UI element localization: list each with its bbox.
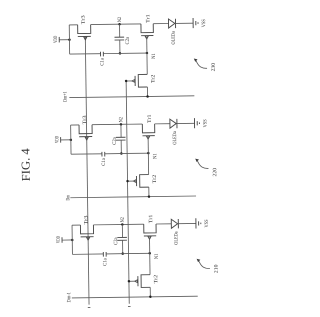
capacitor C1a (220) [102, 152, 105, 157]
node N1 junction (220) [147, 152, 150, 155]
wire top rail middle segment (220) [92, 123, 142, 126]
wire select line for Tr3 gates (vertical column) [85, 37, 89, 305]
junction Tr2 gate to select line (230) [125, 80, 128, 83]
junction Tr2 on scan line (210) [149, 296, 152, 299]
capacitor C2a (220) [116, 137, 126, 140]
junction C2a bottom (230) [119, 52, 122, 55]
wire top rail middle segment (230) [91, 23, 141, 26]
transistor Tr2 (210) [135, 275, 150, 288]
wire Tr2 gate stub (220) [128, 180, 134, 182]
select line end tick [88, 306, 91, 308]
wire VDD feed (210) [62, 239, 72, 241]
svg-text:N1: N1 [152, 153, 158, 159]
wire top rail left segment (230) [69, 24, 77, 26]
wire bottom rail right segment (210) [106, 252, 150, 255]
wire VDD feed (230) [59, 39, 69, 41]
wire N1 down to Tr2 (220) [147, 153, 149, 174]
wire top rail left segment (210) [72, 224, 80, 226]
junction Tr2 gate to select line (220) [126, 180, 129, 183]
transistor Tr1 (220) [142, 124, 155, 139]
wire scan line Dm-1 [72, 296, 198, 298]
VDD terminal bar (210) [61, 237, 63, 242]
svg-text:VDD: VDD [54, 136, 60, 143]
svg-text:230: 230 [211, 62, 217, 71]
wire N1 down to Tr2 (230) [146, 53, 148, 74]
wire C2a to bottom rail (220) [120, 140, 122, 153]
svg-text:VDD: VDD [53, 35, 59, 42]
transistor Tr1 (230) [141, 24, 154, 39]
wire bottom rail left segment (220) [71, 153, 102, 155]
pointer arrow to block 210 [197, 259, 201, 262]
junction VDD node (210) [71, 239, 74, 242]
wire C2a to bottom rail (230) [119, 40, 121, 53]
capacitor C2a (210) [117, 237, 127, 240]
svg-text:N2: N2 [118, 117, 124, 123]
svg-text:Dm-1: Dm-1 [66, 292, 72, 303]
wire Tr1 gate to N1 (220) [147, 137, 149, 153]
svg-text:Tr1: Tr1 [147, 114, 153, 123]
wire bottom rail left segment (210) [72, 253, 103, 255]
wire VDD vertical (220) [70, 125, 72, 154]
pointer arrow to block 230 [194, 58, 198, 61]
svg-text:210: 210 [213, 264, 219, 273]
wire scan line Dm+1 [69, 96, 194, 98]
svg-text:OLEDa: OLEDa [171, 31, 177, 45]
junction VDD node (220) [70, 139, 73, 142]
node N2 junction (210) [121, 223, 124, 226]
node N2 junction (220) [120, 123, 123, 126]
wire Tr2 gate stub (230) [126, 80, 132, 82]
wire Tr2 gate stub (210) [129, 280, 135, 282]
capacitor C1a (210) [103, 252, 106, 257]
svg-text:N1: N1 [154, 253, 160, 259]
wire N1 down to Tr2 (210) [149, 253, 151, 274]
svg-text:C1a: C1a [101, 158, 107, 166]
wire top rail to OLED (210) [156, 223, 171, 225]
wire VDD vertical (230) [68, 25, 70, 54]
wire OLED cathode to VSS (220) [177, 122, 195, 124]
node N1 junction (210) [148, 252, 151, 255]
svg-text:Tr2: Tr2 [153, 274, 159, 283]
svg-text:C1a: C1a [102, 258, 108, 266]
junction C2a bottom (220) [120, 152, 123, 155]
wire scan line Dm [70, 196, 196, 198]
svg-text:Dm+1: Dm+1 [62, 91, 68, 102]
capacitor C1a (230) [101, 52, 104, 57]
wire select line for Tr2 gates (vertical column) [126, 81, 129, 304]
svg-text:N2: N2 [117, 17, 123, 23]
svg-text:Tr2: Tr2 [152, 174, 158, 183]
junction C2a bottom (210) [121, 252, 124, 255]
svg-text:OLEDa: OLEDa [172, 131, 178, 145]
transistor Tr3 (220) [79, 125, 92, 140]
wire bottom rail right segment (230) [103, 52, 147, 55]
wire top rail to OLED (230) [153, 23, 168, 25]
VSS supply symbol (210) [196, 218, 201, 228]
svg-text:N1: N1 [151, 53, 157, 59]
svg-text:VSS: VSS [202, 119, 208, 127]
svg-text:VSS: VSS [204, 219, 210, 227]
svg-text:220: 220 [212, 167, 218, 176]
wire VDD feed (220) [61, 139, 71, 141]
wire VDD vertical (210) [71, 225, 73, 254]
diode OLEDa (230) [168, 19, 175, 28]
svg-text:VDD: VDD [56, 236, 62, 243]
svg-text:C2a: C2a [125, 36, 131, 44]
transistor Tr2 (230) [132, 74, 147, 87]
svg-text:C2a: C2a [112, 137, 118, 145]
wire C2a to bottom rail (210) [122, 240, 124, 253]
wire Tr2 down to scan line (230) [146, 87, 148, 96]
wire top rail to OLED (220) [155, 123, 170, 125]
svg-text:C1a: C1a [99, 57, 105, 65]
svg-text:N2: N2 [120, 217, 126, 223]
wire N2 to C2a (220) [120, 124, 122, 137]
svg-text:FIG. 4: FIG. 4 [18, 148, 32, 181]
svg-text:OLEDa: OLEDa [173, 231, 179, 245]
wire OLED cathode to VSS (210) [178, 222, 196, 224]
capacitor C2a (230) [115, 37, 125, 40]
junction Tr2 gate to select line (210) [128, 280, 131, 283]
transistor Tr3 (230) [78, 25, 91, 40]
node N1 junction (230) [146, 52, 149, 55]
svg-text:Tr1: Tr1 [148, 214, 154, 223]
wire bottom rail left segment (230) [70, 53, 101, 55]
wire Tr1 gate to N1 (210) [149, 237, 151, 253]
node N2 junction (230) [118, 23, 121, 26]
select line end tick [128, 306, 131, 308]
svg-text:Tr3: Tr3 [81, 15, 87, 25]
wire Tr2 down to scan line (220) [148, 187, 150, 196]
wire N2 to C2a (210) [121, 224, 123, 237]
transistor Tr1 (210) [144, 224, 157, 239]
VDD terminal bar (220) [60, 137, 62, 142]
VDD terminal bar (230) [58, 37, 60, 42]
wire Tr2 down to scan line (210) [149, 287, 151, 296]
transistor Tr2 (220) [133, 175, 148, 188]
transistor Tr3 (210) [80, 225, 93, 240]
svg-text:Tr1: Tr1 [145, 14, 151, 23]
diode OLEDa (210) [171, 219, 178, 228]
VSS supply symbol (220) [194, 118, 199, 128]
wire top rail left segment (220) [71, 124, 79, 126]
junction Tr2 on scan line (230) [146, 95, 149, 98]
svg-text:Tr2: Tr2 [150, 74, 156, 83]
svg-text:Tr3: Tr3 [83, 215, 89, 225]
wire OLED cathode to VSS (230) [176, 22, 194, 24]
junction VDD node (230) [68, 38, 71, 41]
wire bottom rail right segment (220) [105, 152, 149, 155]
VSS supply symbol (230) [193, 18, 198, 28]
diode OLEDa (220) [170, 119, 177, 128]
wire N2 to C2a (230) [119, 24, 121, 37]
pointer arrow to block 220 [195, 159, 199, 162]
svg-text:C2a: C2a [113, 237, 119, 245]
svg-text:Tr3: Tr3 [82, 115, 88, 125]
wire Tr1 gate to N1 (230) [146, 37, 148, 53]
svg-text:VSS: VSS [201, 19, 207, 27]
junction Tr2 on scan line (220) [148, 195, 151, 198]
wire top rail middle segment (210) [93, 223, 143, 226]
